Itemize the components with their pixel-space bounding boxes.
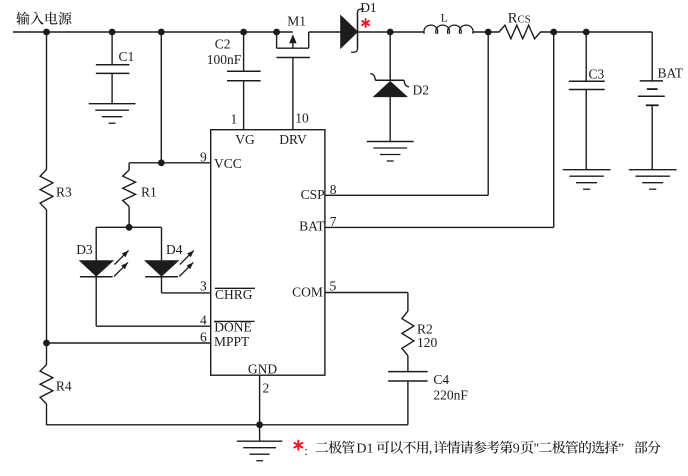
svg-text:VCC: VCC [214,156,242,171]
svg-text:9: 9 [200,149,207,164]
svg-text:RCS: RCS [508,11,531,27]
svg-text:D4: D4 [166,242,183,257]
svg-text:”: ” [618,442,624,457]
svg-text:R3: R3 [56,184,72,199]
svg-text:DRV: DRV [279,132,307,147]
svg-text:5: 5 [330,279,337,294]
svg-text:C2: C2 [215,37,231,52]
svg-text:GND: GND [248,362,277,377]
svg-text:4: 4 [200,313,207,328]
svg-text:220nF: 220nF [433,387,468,402]
svg-text:7: 7 [330,214,337,229]
svg-text:100nF: 100nF [207,52,242,67]
svg-text:D2: D2 [413,83,430,98]
svg-text:MPPT: MPPT [214,334,250,349]
svg-text:D3: D3 [76,242,93,257]
svg-text:120: 120 [417,335,438,350]
svg-text:6: 6 [200,329,207,344]
svg-text:D1: D1 [360,0,377,15]
svg-text:2: 2 [263,380,270,395]
svg-text:9: 9 [513,442,520,457]
svg-text:": " [534,442,540,457]
svg-text:C3: C3 [589,67,605,82]
svg-text:3: 3 [200,279,207,294]
svg-text:8: 8 [330,182,337,197]
svg-text:C1: C1 [119,49,135,64]
svg-text:10: 10 [295,110,309,125]
svg-text:R4: R4 [56,379,72,394]
svg-text:CSP: CSP [301,187,325,202]
svg-text:L: L [441,13,448,25]
svg-text:BAT: BAT [299,219,325,234]
svg-text:C4: C4 [433,372,449,387]
svg-text:M1: M1 [287,13,306,28]
svg-text::: : [304,443,308,458]
svg-text:VG: VG [235,132,255,147]
svg-text:1: 1 [231,112,238,127]
svg-text:R1: R1 [141,184,157,199]
svg-text:CHRG: CHRG [215,287,253,302]
svg-text:COM: COM [292,285,323,300]
svg-text:BAT: BAT [658,66,684,81]
svg-text:D1: D1 [356,442,373,457]
svg-text:,: , [429,442,433,457]
